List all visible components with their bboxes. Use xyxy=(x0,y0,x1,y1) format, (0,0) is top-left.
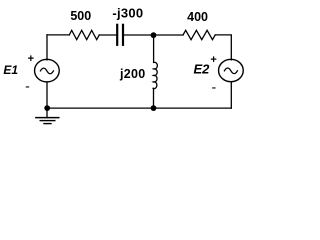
svg-text:E2: E2 xyxy=(193,62,210,77)
source E2 circle xyxy=(219,59,244,81)
source E1 sine wave xyxy=(40,68,53,74)
svg-text:-j300: -j300 xyxy=(112,6,143,21)
svg-text:+: + xyxy=(210,54,216,66)
wire bottom rail xyxy=(47,107,231,109)
node junction dot top xyxy=(151,32,157,38)
wire E1 bottom lead xyxy=(46,82,48,108)
source E2 sine wave xyxy=(224,68,237,74)
ground stub xyxy=(46,108,48,117)
wire top rail left segment xyxy=(47,34,69,36)
wire inductor bottom lead xyxy=(153,88,155,108)
svg-text:-: - xyxy=(25,78,30,94)
ground bar 1 xyxy=(36,117,59,119)
inductor L j200 coil xyxy=(153,62,157,88)
node junction dot bottom left (ground) xyxy=(44,105,50,111)
svg-text:-: - xyxy=(211,79,216,95)
wire resistor 500 to capacitor xyxy=(99,34,116,36)
resistor R 400 xyxy=(183,30,215,39)
source E1 circle xyxy=(35,59,60,82)
ground bar 2 xyxy=(40,120,55,122)
wire capacitor to node to resistor 400 xyxy=(124,34,183,36)
wire E1 top lead (corner to source) xyxy=(46,35,48,60)
wire resistor 400 to top-right corner down to E2 xyxy=(215,35,231,60)
node junction dot bottom middle xyxy=(151,105,157,111)
capacitor C -j300 plate left xyxy=(116,25,118,45)
svg-text:400: 400 xyxy=(187,10,208,24)
svg-text:500: 500 xyxy=(70,9,91,23)
svg-text:E1: E1 xyxy=(3,63,18,77)
svg-text:+: + xyxy=(28,53,34,65)
wire inductor top lead xyxy=(153,35,155,62)
ground bar 3 xyxy=(44,123,51,125)
wire E2 bottom lead xyxy=(230,82,232,108)
resistor R 500 xyxy=(69,30,99,39)
capacitor C -j300 plate right xyxy=(122,25,124,45)
svg-text:j200: j200 xyxy=(119,67,146,81)
